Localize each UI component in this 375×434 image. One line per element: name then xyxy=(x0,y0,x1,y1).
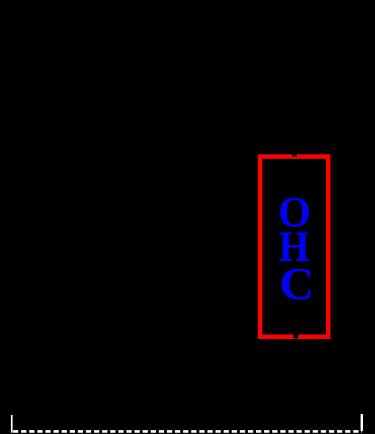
bond segment crossing bottom of highlight box xyxy=(294,330,299,338)
dashed selection border: left corner tick xyxy=(11,415,13,433)
highlight box (red) around CHO group xyxy=(260,157,328,337)
bond segment crossing top of highlight box xyxy=(292,148,296,157)
svg-text:C: C xyxy=(279,260,314,309)
dashed selection border: right corner tick xyxy=(361,414,363,431)
dashed selection border: bottom edge xyxy=(13,430,362,433)
